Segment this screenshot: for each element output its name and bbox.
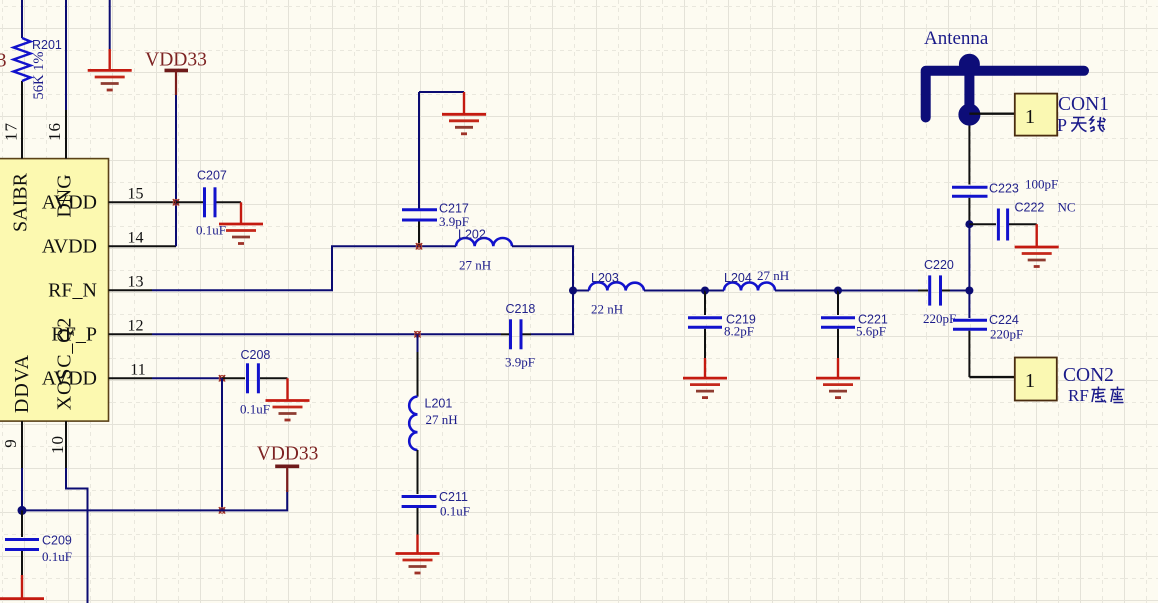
capacitor C207 [176, 169, 241, 238]
svg-text:L204: L204 [724, 271, 752, 285]
power port VDD33 top [145, 50, 207, 96]
junction cross L201 top [414, 331, 420, 337]
ground top-left [88, 49, 132, 90]
wire pin11 [152, 377, 222, 379]
connector CON1 [1015, 94, 1109, 136]
ground at C221 [816, 358, 860, 398]
svg-text:C209: C209 [42, 534, 72, 548]
wire VDD33 to pins 15/14 [175, 95, 177, 246]
svg-text:CON2: CON2 [1063, 365, 1114, 386]
op-amp U201 IC body [0, 159, 109, 422]
pin AVDD bottom name (vertical) [11, 354, 33, 413]
svg-text:56K 1%: 56K 1% [31, 52, 47, 100]
pin number 15 [128, 186, 144, 203]
pin number 12 [128, 318, 144, 335]
svg-text:C208: C208 [241, 348, 271, 362]
node C junction dot [834, 287, 842, 295]
pin number 9 (vertical) [1, 438, 20, 448]
svg-text:1: 1 [1025, 106, 1035, 128]
wire bottom horizontal AVDD net [22, 490, 287, 510]
label RF底座 (RF socket) [1068, 386, 1089, 405]
wire node D up to node E [968, 224, 970, 290]
ground at C211 [396, 535, 440, 574]
capacitor C224 [953, 291, 1023, 378]
wire C220 to node D [950, 290, 969, 292]
svg-text:11: 11 [130, 362, 145, 379]
glyph 线 [1090, 116, 1106, 132]
svg-text:SAIBR: SAIBR [10, 172, 32, 232]
pin XOSC_Q2 name (vertical) [54, 317, 76, 410]
svg-text:10: 10 [48, 435, 67, 454]
svg-text:C207: C207 [197, 169, 227, 183]
pin number 17 (vertical) [2, 122, 21, 141]
inductor L201 [409, 397, 457, 451]
ground at C207 [219, 202, 263, 243]
pin 14 line [109, 245, 177, 247]
pin 16 line [65, 138, 67, 159]
inductor L204 [724, 268, 789, 291]
pin number 13 [128, 274, 144, 291]
svg-text:3: 3 [0, 51, 7, 72]
pin 11 name AVDD [42, 368, 97, 390]
capacitor C221 [821, 291, 888, 359]
svg-text:AVDD: AVDD [42, 192, 97, 214]
pin 13 line [109, 289, 153, 291]
svg-text:VDD33: VDD33 [257, 444, 319, 465]
svg-text:L201: L201 [425, 397, 453, 411]
antenna symbol [926, 54, 1084, 125]
wire antenna to CON1 [969, 112, 1014, 114]
junction dot pin9 [18, 506, 27, 515]
svg-text:P: P [1057, 115, 1067, 135]
wire node B to L204 [705, 290, 724, 292]
ground top-middle [442, 92, 486, 134]
wire pin16 top [65, 0, 67, 140]
power port VDD33 clipped at left edge [0, 51, 7, 72]
svg-text:L203: L203 [591, 271, 619, 285]
svg-text:3.9pF: 3.9pF [505, 355, 535, 370]
svg-text:100pF: 100pF [1025, 177, 1058, 192]
pin number 10 (vertical) [48, 435, 67, 454]
label P天线 (P antenna) [1057, 115, 1067, 135]
svg-text:AVDD: AVDD [42, 368, 97, 390]
svg-text:5.6pF: 5.6pF [856, 324, 886, 339]
svg-text:0.1uF: 0.1uF [240, 402, 270, 417]
svg-text:27 nH: 27 nH [426, 412, 458, 427]
inductor L202 [456, 228, 512, 273]
wire L204 to node C [775, 290, 838, 292]
capacitor C220 [918, 258, 956, 326]
svg-text:C218: C218 [506, 302, 536, 316]
inductor L203 [589, 271, 644, 317]
svg-text:16: 16 [45, 122, 64, 141]
svg-text:27 nH: 27 nH [459, 258, 491, 273]
svg-text:AVDD: AVDD [42, 236, 97, 258]
svg-text:VDD33: VDD33 [145, 50, 207, 71]
svg-text:220pF: 220pF [923, 311, 956, 326]
svg-text:R201: R201 [32, 38, 62, 52]
capacitor C209 [5, 510, 72, 575]
pin 12 name RF_P [51, 324, 97, 346]
junction cross pin15 [173, 199, 179, 205]
wire C224 to CON2 [969, 376, 1014, 378]
ground at C209 [0, 575, 44, 599]
antenna label [924, 28, 989, 49]
capacitor C208 [222, 348, 288, 417]
capacitor C211 [402, 450, 470, 535]
svg-text:CON1: CON1 [1058, 94, 1109, 115]
node E junction dot [965, 220, 973, 228]
wire to ground top-left [109, 0, 111, 49]
power port VDD33 bottom [257, 444, 319, 493]
wire L202 to node A [512, 246, 573, 290]
svg-text:27 nH: 27 nH [757, 268, 789, 283]
wire pin9 down [21, 468, 23, 510]
svg-text:C224: C224 [989, 313, 1019, 327]
wire node C to C220 [838, 290, 918, 292]
wire RF_P down to L201 [417, 334, 419, 396]
wire pin13 RF_N jog [152, 246, 456, 290]
node B junction dot [701, 287, 709, 295]
ground at C208 [266, 378, 310, 420]
svg-text:RF_P: RF_P [51, 324, 97, 346]
ground at C219 [683, 358, 727, 398]
svg-text:15: 15 [128, 186, 144, 203]
node A junction dot [569, 287, 577, 295]
glyph 天 [1071, 118, 1087, 132]
svg-text:C223: C223 [989, 181, 1019, 195]
capacitor C222 [969, 200, 1075, 241]
svg-text:22 nH: 22 nH [591, 302, 623, 317]
svg-text:C211: C211 [439, 490, 468, 504]
svg-text:RF_N: RF_N [48, 280, 97, 302]
svg-text:RF: RF [1068, 386, 1089, 405]
svg-text:1: 1 [1025, 370, 1035, 392]
wire C217 top to ground [419, 91, 464, 93]
pin GND name (vertical) [54, 174, 76, 217]
wire pin17 top [21, 0, 23, 38]
glyph 底 [1092, 387, 1107, 403]
wire node A to L203 [573, 290, 589, 292]
svg-text:NC: NC [1058, 200, 1076, 215]
svg-text:Antenna: Antenna [924, 28, 989, 49]
svg-text:C220: C220 [924, 258, 954, 272]
connector CON2 [1015, 358, 1114, 401]
svg-text:DDVA: DDVA [11, 354, 33, 413]
pin 10 line [65, 421, 67, 468]
svg-text:12: 12 [128, 318, 144, 335]
pin 12 line [109, 333, 153, 335]
pin 15 line [109, 201, 177, 203]
junction cross bottom wire [219, 507, 225, 513]
pin 17 line [21, 81, 23, 159]
ground at C222 [1015, 224, 1059, 266]
svg-text:8.2pF: 8.2pF [724, 324, 754, 339]
svg-text:9: 9 [1, 438, 20, 448]
wire pin11 node down [221, 378, 223, 510]
pin 14 name AVDD [42, 236, 97, 258]
svg-text:13: 13 [128, 274, 144, 291]
capacitor C218 [501, 302, 535, 370]
pin number 11 [130, 362, 145, 379]
node D junction dot [965, 287, 973, 295]
junction cross C217 [416, 243, 422, 249]
wire pin12 RF_P [152, 333, 501, 335]
pin 11 line [109, 377, 153, 379]
pin 9 line [21, 421, 23, 468]
svg-text:0.1uF: 0.1uF [440, 504, 470, 519]
wire C218 to node A [531, 291, 573, 335]
svg-text:17: 17 [2, 122, 21, 141]
pin 15 name AVDD [42, 192, 97, 214]
wire L203 to node B [644, 290, 705, 292]
pin 13 name RF_N [48, 280, 97, 302]
svg-text:0.1uF: 0.1uF [42, 549, 72, 564]
glyph 座 [1111, 387, 1125, 403]
pin RBIAS name (vertical) [10, 172, 32, 232]
wire pin10 down [66, 468, 88, 603]
svg-text:L202: L202 [458, 228, 486, 242]
resistor R201 [14, 38, 62, 99]
pin number 16 (vertical) [45, 122, 64, 141]
capacitor C223 [952, 124, 1058, 224]
svg-text:220pF: 220pF [990, 327, 1023, 342]
capacitor C219 [688, 291, 756, 359]
pin number 14 [128, 230, 144, 247]
capacitor C217 [402, 92, 469, 246]
svg-text:C222: C222 [1015, 201, 1045, 215]
svg-text:14: 14 [128, 230, 144, 247]
junction cross C208 [219, 375, 225, 381]
